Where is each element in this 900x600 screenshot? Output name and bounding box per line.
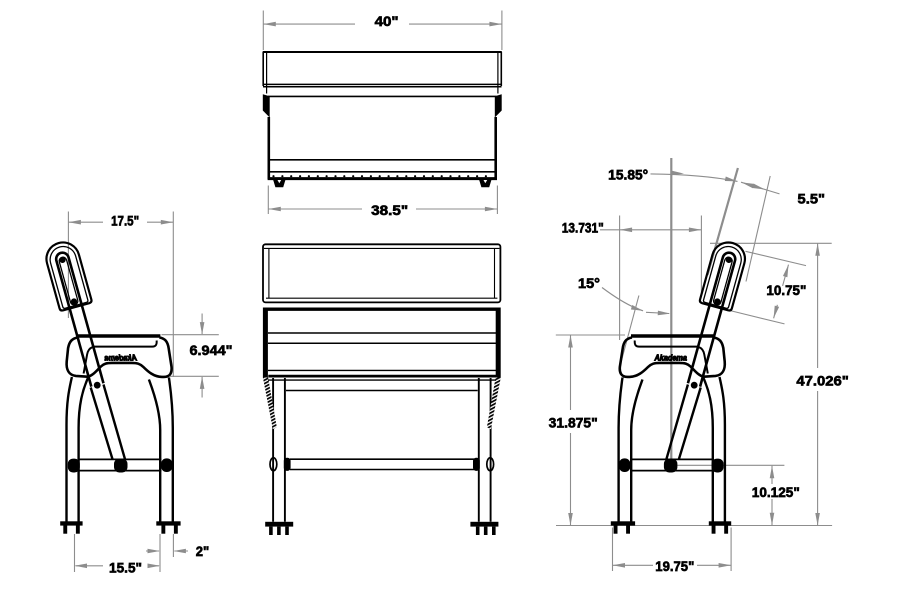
backrest pad edge extension line (right side view) xyxy=(746,176,770,282)
dim 17.5in dimension line xyxy=(68,221,173,223)
seat front and bottom contour xyxy=(620,338,704,377)
rear leg tube xyxy=(703,377,725,522)
seat side bracket wedge right xyxy=(495,94,502,117)
vertical reference centerline (right side view) xyxy=(670,158,672,459)
backrest pad inner contour xyxy=(703,244,744,309)
svg-text:15°: 15° xyxy=(578,276,600,291)
dim 38.5in dimension line xyxy=(268,208,497,210)
crossbar tube xyxy=(630,459,713,470)
seat lower moulding line 1 xyxy=(270,159,496,161)
crossbar end cap left xyxy=(284,458,291,471)
arc for 15deg angle dimension xyxy=(602,288,669,314)
seat top edge band xyxy=(631,334,714,338)
seat rear flap inner edge xyxy=(699,347,708,373)
svg-text:19.75": 19.75" xyxy=(655,559,694,574)
seat front moulding line 2 xyxy=(268,342,497,344)
dim 19.75in arrowheads xyxy=(613,563,626,568)
dim 6.944in arrowheads xyxy=(200,322,205,335)
foot bracket left xyxy=(265,522,293,527)
svg-text:15.85°: 15.85° xyxy=(608,168,648,183)
backrest pad top edge xyxy=(263,51,502,53)
seat bottom edge band xyxy=(268,375,496,378)
crossbar tube xyxy=(290,459,474,469)
crossbar cap centre xyxy=(664,459,678,473)
dim 10.75in dimension line xyxy=(774,265,789,319)
seat side edge left xyxy=(267,117,270,179)
dim 38.5in extension lines (rear view) xyxy=(268,186,497,215)
seat-back fold reference line 15deg (right side view) xyxy=(620,296,639,367)
seat lower moulding line 2 xyxy=(270,171,496,173)
FRONT VIEW (bottom centre) xyxy=(263,244,501,535)
backrest pad outer side edges xyxy=(263,52,501,86)
seat bottom edge band xyxy=(268,177,497,180)
backrest bolt upper xyxy=(725,256,733,264)
svg-text:10.75": 10.75" xyxy=(766,283,806,298)
15deg arc arrowheads xyxy=(631,305,644,313)
backrest pad inner top line xyxy=(264,247,499,249)
dim 10.75in arrowheads xyxy=(783,264,791,277)
dim 31.875in dimension line xyxy=(570,335,572,526)
dim 47.026in arrowheads xyxy=(815,243,820,256)
ground extension line (right side view) xyxy=(556,525,832,527)
backrest post tube xyxy=(688,251,737,386)
svg-text:15.5": 15.5" xyxy=(109,561,142,576)
dim 15.5in extension lines (left side view) xyxy=(75,534,161,572)
side frame hatched wedge left xyxy=(263,378,277,430)
backrest assembly rotated 15.5deg about seat bolt xyxy=(678,239,749,390)
dim 13.731in arrowheads xyxy=(620,228,633,233)
crossbar cap front xyxy=(619,458,631,472)
svg-text:Akadema: Akadema xyxy=(654,354,688,363)
dim 5.5in dimension line (right side view) xyxy=(741,182,780,194)
dim 47.026in dimension line xyxy=(817,243,819,525)
front leg tube xyxy=(619,378,643,522)
under-seat front rail xyxy=(268,379,496,381)
backrest bolt lower xyxy=(714,298,722,306)
seat pivot bolt xyxy=(691,382,698,389)
seat side rim line xyxy=(635,341,698,347)
backrest pad inner side lines xyxy=(269,248,495,298)
dim 2in arrowheads xyxy=(148,549,161,554)
dim 31.875in arrowheads xyxy=(568,335,573,348)
dim 10.125in arrowheads xyxy=(770,466,775,479)
crossbar cap rear xyxy=(712,459,724,473)
svg-text:17.5": 17.5" xyxy=(111,213,139,228)
dim 19.75in dimension line xyxy=(613,564,732,566)
rear foot bracket xyxy=(709,521,731,525)
svg-text:38.5": 38.5" xyxy=(371,203,408,218)
dim 38.5in arrowheads xyxy=(268,207,281,212)
dim 15.5in dimension line xyxy=(76,565,160,567)
dim 17.5in extension lines (left side view) xyxy=(68,212,173,378)
seat-height extension line (right side view) xyxy=(556,334,625,336)
crossbar end cap right xyxy=(473,458,480,471)
svg-text:5.5": 5.5" xyxy=(798,192,826,207)
dim 13.731in dimension line xyxy=(600,229,701,231)
top-of-backrest extension line (right side view) xyxy=(710,242,832,244)
seat side bracket wedge left xyxy=(263,94,270,117)
seat top edge band xyxy=(264,308,500,311)
svg-text:2": 2" xyxy=(196,544,210,559)
side crossbar ring left xyxy=(270,458,277,471)
diagonal brace from pivot to crossbar xyxy=(666,385,700,460)
front leg left xyxy=(273,378,285,522)
LEFT SIDE VIEW: mirror of the right side view xyxy=(43,239,181,534)
15.85deg arc arrowheads xyxy=(671,171,684,176)
svg-text:31.875": 31.875" xyxy=(549,415,598,430)
backrest pad outer contour xyxy=(699,239,748,312)
dim 10.75in extension lines (right side view) xyxy=(731,251,806,324)
svg-text:13.731": 13.731" xyxy=(562,221,604,236)
backrest pad inner side edges xyxy=(267,53,498,94)
seat rear flap contour xyxy=(704,338,725,377)
seat back top edge xyxy=(268,95,497,97)
backrest angle reference line 15.85deg (right side view) xyxy=(708,168,738,275)
rear foot right xyxy=(479,180,491,187)
dim 2in extension lines (left side view) xyxy=(160,534,173,557)
dim 13.731in extension lines (right side view) xyxy=(620,216,702,341)
svg-text:47.026": 47.026" xyxy=(796,374,849,389)
RIGHT SIDE VIEW geometry (master, re-used mirrored for the left view) xyxy=(611,239,749,534)
dim 40in dimension line xyxy=(263,23,502,25)
crossbar extension line (right side view) xyxy=(676,464,784,466)
arc for 15.85deg angle dimension xyxy=(651,174,738,182)
dim 10.125in dimension line xyxy=(771,466,773,526)
dim 6.944in extension lines (left side view) xyxy=(162,335,219,377)
rivet dot row along bottom xyxy=(272,175,487,177)
foot bracket right xyxy=(470,522,498,527)
front leg right xyxy=(479,378,491,522)
dim 15.5in arrowheads xyxy=(75,564,88,569)
dim 17.5in arrowheads xyxy=(68,220,81,225)
backrest pad inner bottom line xyxy=(266,297,497,299)
dim 40in extension lines (rear view) xyxy=(263,11,502,51)
seat side edge band left xyxy=(263,308,268,378)
svg-text:10.125": 10.125" xyxy=(752,485,800,500)
REAR VIEW (top centre) xyxy=(263,52,502,187)
seat bottom thin line xyxy=(268,369,497,371)
rear foot left xyxy=(273,180,285,187)
side frame hatched wedge right xyxy=(487,378,501,430)
backrest post inner slot xyxy=(713,256,733,305)
dim 40in arrowheads xyxy=(263,22,276,27)
dim 6.944in dimension line xyxy=(201,314,203,398)
dim 5.5in arrowheads xyxy=(741,180,754,188)
seat side edge right xyxy=(494,117,497,179)
dim 2in dimension line xyxy=(146,550,188,552)
backrest pad outer rectangle xyxy=(263,244,500,302)
seat side edge band right xyxy=(496,308,501,378)
svg-text:40": 40" xyxy=(375,14,399,29)
seat front moulding line 1 xyxy=(268,332,497,334)
side crossbar ring right xyxy=(487,458,494,471)
dim 19.75in extension lines (right side view) xyxy=(613,528,732,572)
front foot bracket xyxy=(611,521,635,525)
svg-text:6.944": 6.944" xyxy=(190,343,233,358)
backrest pad lower edge line 2 xyxy=(263,86,502,88)
under-seat rear rail xyxy=(286,390,478,392)
backrest pad lower edge line 1 xyxy=(263,83,502,85)
